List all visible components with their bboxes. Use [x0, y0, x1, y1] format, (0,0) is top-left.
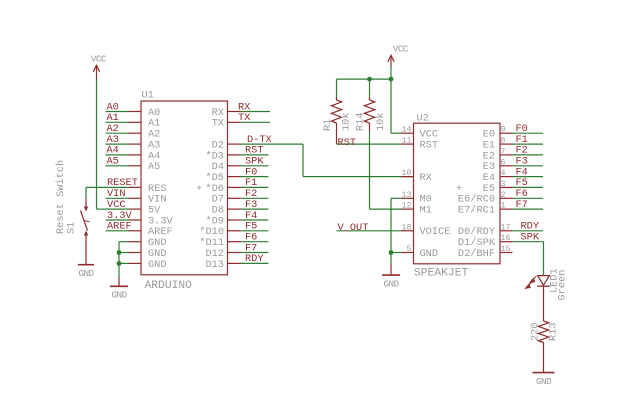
power VCC symbol (left) — [91, 53, 107, 79]
node 3.3V label — [107, 210, 133, 222]
wire net F7 (U1 side) — [241, 252, 269, 254]
wire net F4 (U1 side) — [241, 219, 269, 221]
svg-text:17: 17 — [501, 223, 511, 232]
svg-text:R1: R1 — [322, 119, 334, 131]
wire VCC down to pin14 — [391, 79, 401, 133]
svg-text:10: 10 — [402, 169, 412, 178]
svg-text:13: 13 — [402, 191, 412, 200]
node F4 label (U2 side) — [516, 166, 528, 178]
U2 right pin names — [458, 129, 496, 260]
svg-text:A5: A5 — [107, 156, 119, 168]
wire net F3 (U2 side) — [513, 165, 544, 167]
power VCC symbol (right) — [388, 43, 409, 66]
node F6 label (U1 side) — [245, 232, 257, 244]
svg-text:18: 18 — [402, 223, 412, 232]
node TX label — [238, 112, 250, 124]
svg-text:+: + — [456, 183, 462, 195]
node F6 label (U2 side) — [516, 188, 528, 200]
svg-text:GND: GND — [148, 259, 167, 271]
U2 left pin numbers — [402, 126, 412, 254]
svg-text:RX: RX — [420, 172, 432, 184]
wire net AREF — [106, 230, 129, 232]
svg-text:12: 12 — [402, 202, 412, 211]
svg-text:Green: Green — [556, 270, 568, 301]
node RESET label — [107, 177, 138, 189]
wire R1 top lead — [336, 79, 338, 99]
wire V_OUT — [337, 230, 402, 232]
U1 plus mark — [196, 183, 202, 195]
R1 name label — [322, 119, 334, 131]
svg-text:RST: RST — [420, 140, 439, 152]
node VIN label — [107, 188, 126, 200]
svg-text:11: 11 — [402, 137, 412, 146]
svg-text:9: 9 — [501, 126, 506, 135]
wire net VIN — [106, 197, 129, 199]
resistor R14 — [364, 97, 374, 131]
wire VCC stem — [390, 66, 392, 79]
svg-text:U2: U2 — [417, 112, 429, 124]
node F2 label (U2 side) — [516, 145, 528, 157]
svg-text:8: 8 — [501, 137, 506, 146]
svg-text:SPK: SPK — [521, 232, 540, 244]
wire net F6 (U2 side) — [513, 197, 544, 199]
wire GND pin1 — [119, 241, 129, 243]
switch S1 top pin — [84, 198, 88, 212]
resistor R1 — [331, 97, 341, 144]
node RST label — [338, 137, 357, 149]
svg-text:TX: TX — [212, 118, 224, 130]
node VCC label — [107, 199, 126, 211]
wire R14 to M1 — [370, 131, 402, 209]
node F7 label (U2 side) — [516, 199, 528, 211]
wire net F1 (U1 side) — [241, 186, 269, 188]
svg-text:GND: GND — [384, 278, 400, 289]
SPEAKJET value label — [414, 268, 468, 280]
svg-text:TX: TX — [238, 112, 250, 124]
svg-text:D13: D13 — [205, 259, 224, 271]
node A3 label — [107, 134, 119, 146]
svg-text:E7/RC1: E7/RC1 — [458, 205, 495, 217]
node F3 label (U1 side) — [245, 199, 257, 211]
junction GND b — [117, 261, 122, 266]
node F1 label (U1 side) — [245, 177, 257, 189]
node F3 label (U2 side) — [516, 156, 528, 168]
svg-text:16: 16 — [501, 234, 511, 243]
wire net F1 (U2 side) — [513, 143, 544, 145]
svg-text:AREF: AREF — [107, 221, 132, 233]
svg-text:2: 2 — [501, 191, 506, 200]
IC U1 ARDUINO symbol box — [141, 101, 228, 275]
node F2 label (U1 side) — [245, 188, 257, 200]
U2 left pins — [401, 133, 414, 252]
R13 name label — [548, 322, 560, 341]
LED LED1 — [537, 276, 550, 321]
U2 name label — [417, 112, 429, 124]
svg-text:U1: U1 — [142, 90, 154, 102]
U1 right pins — [228, 112, 241, 264]
svg-text:M1: M1 — [420, 205, 432, 217]
node AREF label — [107, 221, 132, 233]
wire net RESET — [106, 186, 129, 188]
node F0 label (U1 side) — [245, 166, 257, 178]
wire net RDY (U2 side) — [513, 230, 544, 232]
wire net F7 (U2 side) — [513, 208, 544, 210]
S1 Reset Switch label — [55, 160, 78, 234]
resistor R13 — [538, 321, 548, 373]
svg-text:3: 3 — [501, 180, 506, 189]
LED1 emission arrows — [526, 276, 537, 288]
wire net RX — [241, 111, 271, 113]
wire RST — [337, 143, 402, 145]
svg-text:VOICE: VOICE — [420, 226, 451, 238]
junction M0-GND — [389, 250, 394, 255]
node F5 label (U1 side) — [245, 221, 257, 233]
U1 left pin names — [148, 107, 174, 271]
wire net VCC — [106, 208, 129, 210]
wire GND pin5 — [391, 252, 401, 254]
wire R14 top lead — [369, 79, 371, 99]
svg-text:GND: GND — [112, 290, 128, 301]
wire net RST (U1 side) — [241, 154, 269, 156]
node RDY label (U2 side) — [521, 221, 540, 233]
node F4 label (U1 side) — [245, 210, 257, 222]
wire net A5 — [106, 165, 129, 167]
svg-text:GND: GND — [536, 376, 552, 387]
wire net F4 (U2 side) — [513, 176, 544, 178]
wire M0 down — [390, 198, 392, 252]
svg-text:+: + — [196, 183, 202, 195]
svg-text:1: 1 — [501, 202, 506, 211]
wire net A1 — [106, 121, 129, 123]
U2 right pins — [500, 133, 513, 252]
R14 value 10k — [375, 112, 387, 131]
wire VCC rail — [337, 78, 392, 80]
node F5 label (U2 side) — [516, 177, 528, 189]
svg-text:D2/BHF: D2/BHF — [458, 248, 495, 260]
R13 value 220 — [530, 322, 542, 341]
svg-text:220: 220 — [530, 322, 542, 341]
node D-TX label — [247, 134, 272, 146]
ground GND under S1 — [78, 265, 94, 279]
wire net A2 — [106, 132, 129, 134]
U1 right pin names — [199, 107, 224, 271]
wire net 3.3V — [106, 219, 129, 221]
svg-text:GND: GND — [420, 248, 439, 260]
wire VCC to 5V pin — [97, 208, 106, 210]
switch S1 bottom pin — [84, 231, 88, 265]
wire D-TX to RX pin — [303, 176, 414, 178]
svg-text:10k: 10k — [375, 112, 387, 131]
node A2 label — [107, 123, 119, 135]
svg-text:D-TX: D-TX — [247, 134, 272, 146]
wire net F6 (U1 side) — [241, 241, 269, 243]
junction VCC-R14 — [367, 77, 372, 82]
U1 name label — [142, 90, 154, 102]
ground GND under U1 — [110, 286, 128, 300]
svg-text:15: 15 — [501, 245, 511, 254]
node A1 label — [107, 112, 119, 124]
wire SPK down to LED — [543, 242, 545, 275]
wire net F0 (U1 side) — [241, 176, 269, 178]
wire net F2 (U2 side) — [513, 154, 544, 156]
U2 left pin names — [420, 129, 451, 260]
wire net SPK (U1 side) — [241, 165, 269, 167]
svg-text:A5: A5 — [148, 161, 160, 173]
node F7 label (U1 side) — [245, 242, 257, 254]
node A4 label — [107, 145, 119, 157]
wire GND pin3 — [119, 262, 129, 264]
svg-text:RDY: RDY — [245, 253, 264, 265]
wire net F2 (U1 side) — [241, 197, 269, 199]
U1 left pins — [129, 112, 142, 264]
svg-text:7: 7 — [501, 147, 506, 156]
junction VCC-down — [389, 77, 394, 82]
svg-text:6: 6 — [501, 158, 506, 167]
svg-text:GND: GND — [79, 268, 95, 279]
node F0 label (U2 side) — [516, 123, 528, 135]
svg-text:R13: R13 — [548, 322, 560, 341]
node A0 label — [107, 101, 119, 113]
wire net F0 (U2 side) — [513, 132, 544, 134]
node A5 label — [107, 156, 119, 168]
junction GND a — [117, 250, 122, 255]
wire GND stub — [118, 278, 120, 286]
wire D-TX vertical — [302, 144, 304, 177]
svg-text:10k: 10k — [341, 112, 353, 131]
node SPK label (U1 side) — [245, 156, 264, 168]
node F1 label (U2 side) — [516, 134, 528, 146]
wire net RDY (U1 side) — [241, 262, 269, 264]
U2 right pin numbers — [501, 126, 511, 254]
wire net A3 — [106, 143, 129, 145]
switch S1 lever — [81, 211, 90, 231]
svg-text:5: 5 — [407, 245, 412, 254]
node RDY label (U1 side) — [245, 253, 264, 265]
wire GND vertical — [118, 242, 120, 278]
wire GND drop — [390, 253, 392, 265]
R14 name label — [355, 112, 367, 131]
wire net SPK (U2 side) — [513, 241, 544, 243]
wire net F5 (U1 side) — [241, 230, 269, 232]
svg-text:ARDUINO: ARDUINO — [145, 280, 193, 292]
wire M0 — [391, 197, 401, 199]
svg-text:R14: R14 — [355, 112, 367, 131]
svg-text:14: 14 — [402, 126, 412, 135]
wire net A4 — [106, 154, 129, 156]
wire net F3 (U1 side) — [241, 208, 269, 210]
node V_OUT label — [338, 222, 369, 234]
ground GND under U2 — [382, 275, 400, 289]
wire net TX — [241, 121, 271, 123]
LED1 name label — [549, 268, 561, 293]
wire GND stub (U2) — [390, 265, 392, 276]
U2 plus mark — [456, 183, 462, 195]
svg-text:RST: RST — [338, 137, 357, 149]
wire D-TX horizontal — [241, 143, 304, 145]
IC U2 SPEAKJET symbol box — [414, 123, 501, 264]
svg-text:4: 4 — [501, 169, 506, 178]
svg-text:VCC: VCC — [91, 53, 107, 64]
svg-text:F7: F7 — [516, 199, 528, 211]
wire switch drop — [85, 187, 87, 198]
node RX label — [238, 101, 250, 113]
svg-text:S1: S1 — [66, 222, 78, 234]
svg-text:SPEAKJET: SPEAKJET — [414, 268, 468, 280]
wire net A0 — [106, 111, 129, 113]
wire net F5 (U2 side) — [513, 186, 544, 188]
ground GND under R13 — [533, 373, 555, 387]
wire RESET to switch — [86, 186, 106, 188]
svg-text:V_OUT: V_OUT — [338, 222, 369, 234]
wire VCC vertical (left) — [96, 79, 98, 210]
svg-text:VCC: VCC — [393, 43, 409, 54]
R1 value 10k — [341, 112, 353, 131]
node RST label (U1 side) — [245, 145, 264, 157]
node SPK label (U2 side) — [521, 232, 540, 244]
wire GND pin2 — [119, 252, 129, 254]
ARDUINO value label — [145, 280, 193, 292]
LED1 value Green — [556, 270, 568, 301]
